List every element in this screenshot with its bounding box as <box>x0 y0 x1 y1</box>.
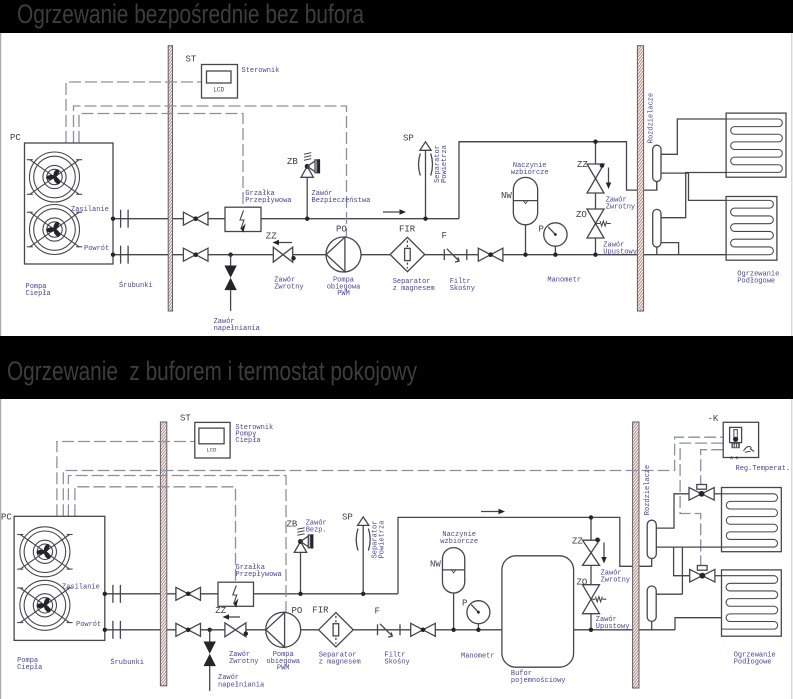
svg-text:FIR: FIR <box>312 606 329 616</box>
fan 1 of heat pump D1 <box>27 152 82 202</box>
wire: mixing valve 2 to panel 2 D2 <box>715 575 722 577</box>
label Sterownik D1 <box>242 67 280 75</box>
junction riser bottom D1 <box>593 253 597 257</box>
svg-text:PC: PC <box>1 513 12 523</box>
svg-text:SP: SP <box>403 134 414 144</box>
expansion vessel NW D2 <box>442 548 464 632</box>
label PO D2 <box>292 606 303 616</box>
svg-text:Powietrza: Powietrza <box>378 521 386 559</box>
wire: return manifold stub D1 <box>661 243 679 255</box>
label Zawór napełniania D1 <box>214 318 260 333</box>
svg-text:F: F <box>375 607 380 617</box>
label Grzałka Przepływowa D1 <box>245 190 291 205</box>
check valve ZZ vertical D2 <box>583 538 607 566</box>
control line (dashed) PC to flow heater D2 <box>75 487 236 583</box>
wall partition (hatched) D1 left <box>168 46 172 311</box>
svg-text:ST: ST <box>180 414 191 424</box>
wire: D2 return pipe left of buffer <box>105 629 502 631</box>
svg-text:Bezpieczeństwa: Bezpieczeństwa <box>312 197 371 205</box>
label Zawór Zwrotny (riser) D1 <box>606 197 635 212</box>
wire: D2 return pipe right of buffer <box>574 618 722 630</box>
svg-text:PWM: PWM <box>337 290 350 298</box>
svg-text:ZZ: ZZ <box>266 232 277 242</box>
floor heating panel 2 D2 <box>722 570 782 636</box>
label Zawór Upustowy D1 <box>603 242 637 257</box>
control line (dashed) K to mixing valve 1 D2 <box>701 450 724 485</box>
floor heating panel 1 D2 <box>722 488 782 552</box>
control line (dashed) PC to room thermostat K D2 <box>63 437 723 516</box>
svg-text:P: P <box>462 599 467 609</box>
magnetic separator FIR D1 <box>390 237 425 271</box>
svg-text:Powrót: Powrót <box>84 245 109 253</box>
svg-text:Sterownik: Sterownik <box>242 67 280 75</box>
svg-text:napełniania: napełniania <box>214 325 260 333</box>
svg-text:wzbiorcze: wzbiorcze <box>440 538 478 546</box>
wire: D2 valve column riser <box>590 517 592 629</box>
control line (dashed) PC to ST controller D1 <box>66 82 202 143</box>
svg-text:Śrubunki: Śrubunki <box>110 657 144 667</box>
svg-text:-K: -K <box>708 414 719 424</box>
svg-text:Powrót: Powrót <box>76 621 101 629</box>
wire: floor loop 1 return drop D2 <box>681 547 683 594</box>
svg-text:ZB: ZB <box>287 157 298 167</box>
buffer tank (Bufor pojemnościowy) D2 <box>502 556 574 667</box>
svg-text:PO: PO <box>336 225 347 235</box>
svg-text:Podłogowe: Podłogowe <box>734 659 772 667</box>
svg-text:Rozdzielacze: Rozdzielacze <box>644 465 652 515</box>
svg-text:Bezp.: Bezp. <box>306 527 327 535</box>
label Zawór Bezpieczeństwa D1 <box>312 190 371 205</box>
junction riser top D1 <box>593 140 597 144</box>
flow heater (Grzałka Przepływowa) D2 <box>218 582 254 607</box>
shut-off valve before vessel D1 <box>478 248 503 261</box>
label ZZ check D1 <box>266 232 277 242</box>
label Zawór Zwrotny D2 <box>229 651 258 666</box>
label Filtr Skośny D1 <box>450 278 475 293</box>
floor heating panel 1 D1 <box>726 113 786 177</box>
svg-text:Ciepła: Ciepła <box>235 437 260 445</box>
svg-text:PWM: PWM <box>277 665 290 673</box>
shut-off valve before vessel D2 <box>411 623 436 636</box>
svg-text:wzbiorcze: wzbiorcze <box>511 169 549 177</box>
svg-text:**: ** <box>729 456 740 466</box>
svg-text:ZB: ZB <box>287 520 298 530</box>
svg-text:Śrubunki: Śrubunki <box>119 280 153 290</box>
svg-text:Zwrotny: Zwrotny <box>606 204 635 212</box>
label Filtr Skośny D2 <box>385 652 410 667</box>
label Pompa Ciepła D2 <box>17 657 42 672</box>
label Bufor pojemnościowy D2 <box>511 670 566 685</box>
controller ST D2 <box>195 422 230 458</box>
flow arrow on supply D2 <box>481 509 505 514</box>
svg-text:Zasilanie: Zasilanie <box>71 206 109 214</box>
svg-text:Zasilanie: Zasilanie <box>62 584 100 592</box>
wire: D1 riser top run to manifold wall <box>459 141 627 143</box>
svg-text:Manometr: Manometr <box>461 653 495 661</box>
heat pump PC outline D2 <box>14 516 105 640</box>
check valve ZZ vertical D1 <box>587 163 611 193</box>
svg-text:Ciepła: Ciepła <box>17 664 42 672</box>
label Śrubunki D1 <box>119 280 153 290</box>
label Naczynie wzbiorcze D2 <box>440 531 478 546</box>
wall partition (hatched) D2 right <box>633 422 639 688</box>
svg-text:F: F <box>442 231 447 241</box>
svg-text:ST: ST <box>186 55 197 65</box>
wire: floor loop 1 return to manifold D1 <box>661 173 726 218</box>
safety valve ZB D2 <box>294 528 313 596</box>
wire: drop to mixing valve 2 D2 <box>674 547 690 576</box>
air separator SP D2 <box>356 517 370 596</box>
wire: manifold to mixing valve 1 D2 <box>656 494 689 528</box>
svg-text:P: P <box>539 225 544 235</box>
mixing valve 2 (with actuator) D2 <box>690 566 715 583</box>
junction PC supply D2 <box>103 592 107 596</box>
label PO D1 <box>336 225 347 235</box>
control line (dashed) K to mixing valve 2 D2 <box>680 443 723 565</box>
svg-text:z magnesem: z magnesem <box>319 659 361 667</box>
shut-off valve supply D2 <box>176 587 201 600</box>
control line (dashed) PC to flow heater D1 <box>79 114 243 208</box>
svg-text:SP: SP <box>342 513 353 523</box>
label ZB D2 <box>287 520 298 530</box>
label FIR D1 <box>399 225 416 235</box>
junction riser top D2 <box>589 515 593 519</box>
label ZO D1 <box>576 210 587 220</box>
label Zawór Zwrotny D1 <box>274 277 303 292</box>
label Reg.Temperat. D2 <box>736 465 791 473</box>
mixing valve 1 (with actuator) D2 <box>689 485 714 501</box>
svg-text:Manometr: Manometr <box>547 277 581 285</box>
svg-text:Skośny: Skośny <box>450 285 475 293</box>
svg-text:napełniania: napełniania <box>218 682 264 690</box>
svg-text:Przepływowa: Przepływowa <box>245 197 291 205</box>
control line (dashed) PC to ST controller D2 <box>57 442 195 517</box>
fan 2 of heat pump D2 <box>17 580 72 630</box>
label PC D1 <box>10 133 21 143</box>
label Zawór Bezp. D2 <box>306 520 327 535</box>
svg-text:pojemnościowy: pojemnościowy <box>511 677 566 685</box>
junction PC return D2 <box>103 628 107 632</box>
union coupling (śrubunek) return D1 <box>121 246 129 264</box>
label FIR D2 <box>312 606 329 616</box>
svg-text:PO: PO <box>292 606 303 616</box>
label ZZ vertical D1 <box>577 160 588 170</box>
label Śrubunki D2 <box>110 657 144 667</box>
title bar 1 <box>0 0 793 33</box>
label Zasilanie D1 <box>71 206 109 214</box>
circulation pump PO D1 <box>326 237 361 272</box>
svg-text:ZO: ZO <box>576 210 587 220</box>
wire: mixing valve 1 to panel 1 D2 <box>714 493 721 495</box>
svg-text:Zwrotny: Zwrotny <box>601 577 630 585</box>
label ST D2 <box>180 414 191 424</box>
label Rozdzielacze (vertical) D2 <box>644 465 652 515</box>
shut-off valve supply D1 <box>183 212 208 225</box>
wire: manifold to floor loop 1 supply D1 <box>661 119 726 154</box>
supply manifold (rozdzielacz) D2 <box>647 520 656 558</box>
label Sterownik Pompy Ciepła D2 <box>235 424 273 445</box>
shut-off valve return D2 <box>176 623 201 636</box>
label Naczynie wzbiorcze D1 <box>511 162 549 177</box>
label Ogrzewanie Podłogowe D1 <box>737 271 779 286</box>
room thermostat K D2 <box>723 422 758 465</box>
svg-text:NW: NW <box>430 560 441 570</box>
return manifold (rozdzielacz) D2 <box>647 586 656 630</box>
pressure gauge P D2 <box>467 601 490 632</box>
fan 1 of heat pump D2 <box>17 527 72 577</box>
strainer filter F D2 <box>378 624 401 637</box>
label Grzałka Przepływowa D2 <box>236 564 282 579</box>
wall partition (hatched) D2 left <box>160 422 166 686</box>
fill valve (Zawór napełniania) D1 <box>224 253 236 312</box>
label Pompa Ciepła D1 <box>26 283 51 298</box>
wire: manifold to floor loop 2 supply D1 <box>661 173 726 200</box>
wire: D1 supply pipe (Zasilanie) from heat pump to riser <box>113 142 657 219</box>
pressure gauge P D1 <box>544 223 567 257</box>
svg-text:z magnesem: z magnesem <box>393 285 435 293</box>
svg-text:ZZ: ZZ <box>577 160 588 170</box>
label NW D2 <box>430 560 441 570</box>
supply manifold (rozdzielacz) D1 <box>653 145 661 190</box>
flow arrow on supply D1 <box>383 209 406 214</box>
svg-text:Upustowy: Upustowy <box>603 248 637 256</box>
svg-text:Zwrotny: Zwrotny <box>229 658 258 666</box>
svg-text:PC: PC <box>10 133 21 143</box>
heat pump PC outline D1 <box>25 143 114 264</box>
fill valve (Zawór napełniania) D2 <box>204 628 216 691</box>
drain valve ZO D1 <box>587 209 611 238</box>
fan 2 of heat pump D1 <box>27 205 82 255</box>
label P D2 <box>462 599 467 609</box>
union coupling (śrubunek) supply D1 <box>121 210 129 228</box>
svg-text:Podłogowe: Podłogowe <box>737 278 775 286</box>
svg-text:Powietrza: Powietrza <box>441 145 449 183</box>
control line (dashed) PC to circulation pump D2 <box>68 476 286 612</box>
svg-text:Ciepła: Ciepła <box>26 290 51 298</box>
safety valve ZB D1 <box>301 153 320 221</box>
label Zawór Zwrotny (riser) D2 <box>601 570 630 585</box>
label P D1 <box>539 225 544 235</box>
shut-off valve return D1 <box>183 248 208 261</box>
label Zasilanie D2 <box>62 584 100 592</box>
label Powrót D1 <box>84 245 109 253</box>
svg-text:ZZ: ZZ <box>572 537 583 547</box>
label SP D2 <box>342 513 353 523</box>
label Pompa obiegowa PWM D2 <box>266 651 300 673</box>
expansion vessel NW D1 <box>513 177 537 257</box>
svg-text:FIR: FIR <box>399 225 416 235</box>
wall partition (hatched) D1 right <box>637 46 643 311</box>
svg-text:Upustowy: Upustowy <box>596 623 630 631</box>
svg-text:Skośny: Skośny <box>385 659 410 667</box>
label Rozdzielacze (vertical) D1 <box>647 93 655 143</box>
svg-text:LCD: LCD <box>213 87 224 94</box>
control line (dashed) PC to circulation pump PO D1 <box>74 106 347 237</box>
label Ogrzewanie Podłogowe D2 <box>734 652 776 667</box>
air separator SP D1 <box>419 142 433 221</box>
wire: D1 valve column riser <box>595 142 597 255</box>
junction PC supply D1 <box>111 217 115 221</box>
union coupling supply D2 <box>113 585 121 603</box>
label ZZ vertical D2 <box>572 537 583 547</box>
wire: return manifold stub D2 <box>656 593 682 595</box>
wire: D2 supply pipe from heat pump <box>105 517 652 593</box>
label ZZ check D2 <box>215 606 226 616</box>
floor heating panel 2 D1 <box>726 197 777 261</box>
label Separator z magnesem D1 <box>393 278 435 293</box>
label Pompa obiegowa PWM D1 <box>327 277 361 299</box>
label Separator z magnesem D2 <box>319 652 361 667</box>
check valve ZZ horizontal D1 <box>273 240 296 262</box>
junction PC return D1 <box>111 253 115 257</box>
wire: manifold supply/return header D2 <box>656 546 721 548</box>
label ZB D1 <box>287 157 298 167</box>
wire: D1 return pipe (Powrót) full run <box>113 254 726 256</box>
svg-text:Ogrzewanie bezpośrednie bez bu: Ogrzewanie bezpośrednie bez bufora <box>17 0 365 29</box>
magnetic separator FIR D2 <box>319 613 354 647</box>
title bar 2 <box>0 336 793 399</box>
label F D1 <box>442 231 447 241</box>
label NW D1 <box>501 191 512 201</box>
label Separator Powietrza (vertical) D1 <box>434 145 449 183</box>
svg-text:Reg.Temperat.: Reg.Temperat. <box>736 465 791 473</box>
svg-text:Zwrotny: Zwrotny <box>274 284 303 292</box>
controller ST D1 <box>202 65 238 99</box>
label Zawór napełniania D2 <box>218 674 264 690</box>
strainer filter F D1 <box>444 249 467 262</box>
label Zawór Upustowy D2 <box>596 616 630 631</box>
label F D2 <box>375 607 380 617</box>
union coupling return D2 <box>113 621 121 639</box>
svg-text:NW: NW <box>501 191 512 201</box>
svg-text:Przepływowa: Przepływowa <box>236 571 282 579</box>
return manifold (rozdzielacz) D1 <box>653 209 661 254</box>
label -K D2 <box>708 414 719 424</box>
label PC D2 <box>1 513 12 523</box>
svg-text:Ogrzewanie z buforem i termos: Ogrzewanie z buforem i termostat pokojow… <box>7 356 417 386</box>
label SP D1 <box>403 134 414 144</box>
label Powrót D2 <box>76 621 101 629</box>
check valve ZZ horizontal D2 <box>223 614 249 637</box>
label ST D1 <box>186 55 197 65</box>
label Manometr D2 <box>461 653 495 661</box>
svg-text:ZO: ZO <box>577 578 588 588</box>
junction riser bottom D2 <box>589 628 593 632</box>
svg-text:ZZ: ZZ <box>215 606 226 616</box>
flow heater (Grzałka Przepływowa) D1 <box>225 207 261 232</box>
label ZO D2 <box>577 578 588 588</box>
circulation pump PO D2 <box>266 612 301 647</box>
label Separator Powietrza (vertical) D2 <box>371 521 386 559</box>
label Manometr D1 <box>547 277 581 285</box>
drain valve ZO D2 <box>583 585 607 614</box>
svg-text:LCD: LCD <box>207 447 218 454</box>
svg-text:Rozdzielacze: Rozdzielacze <box>647 93 655 143</box>
